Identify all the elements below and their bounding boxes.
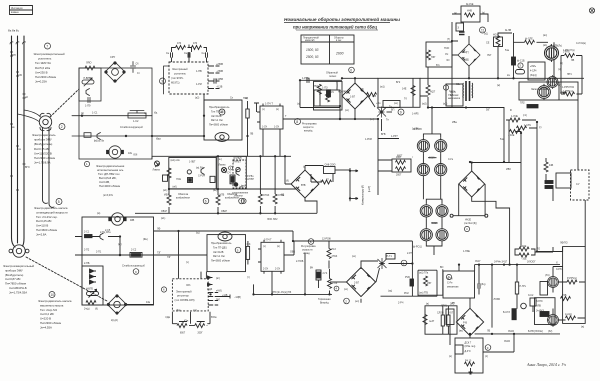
converter2 box xyxy=(207,235,246,272)
ladder resistor KDzh xyxy=(177,322,187,328)
wire bridge V4 bottom xyxy=(469,335,471,338)
resistor pair 100G xyxy=(392,159,411,172)
phase line fuse ticks xyxy=(10,52,26,190)
resistor NS4 xyxy=(494,36,503,47)
svg-text:Н(2Г: Н(2Г xyxy=(430,91,436,94)
svg-text:200Г: 200Г xyxy=(396,174,402,177)
svg-text:Ы-С1Б: Ы-С1Б xyxy=(517,60,525,63)
svg-text:(и1): (и1) xyxy=(161,217,165,220)
wire left drop x178 xyxy=(178,231,180,279)
wire tacho right xyxy=(387,111,393,113)
svg-text:Р-РРЧ(з): Р-РРЧ(з) xyxy=(567,277,577,280)
wire bridge V3 bottom jog xyxy=(472,197,510,265)
svg-text:(л): (л) xyxy=(560,62,563,65)
svg-text:Ы-РОЮ: Ы-РОЮ xyxy=(413,128,422,131)
svg-text:ИФ1: ИФ1 xyxy=(164,194,170,197)
svg-text:51а: 51а xyxy=(505,49,510,52)
svg-text:(кз): (кз) xyxy=(394,102,398,105)
right output rect xyxy=(563,247,586,324)
junction xyxy=(119,254,121,256)
svg-text:Фа Фв Фс: Фа Фв Фс xyxy=(8,30,20,33)
circled note 22 xyxy=(241,199,246,204)
resistor SLOO xyxy=(441,306,444,334)
terminal row 2 xyxy=(208,72,220,74)
svg-text:(л): (л) xyxy=(558,85,561,87)
svg-text:(кч): (кч) xyxy=(370,118,374,121)
svg-text:НСЬ: НСЬ xyxy=(176,179,181,181)
wire NS3 to switch xyxy=(247,136,249,156)
svg-text:(еч): (еч) xyxy=(355,300,359,303)
box U1 outline xyxy=(79,68,152,159)
svg-text:5: 5 xyxy=(58,200,60,204)
svg-text:Ы-ЛВ: Ы-ЛВ xyxy=(505,29,511,32)
wire y162 to bridge xyxy=(472,162,521,164)
inner sub-box xyxy=(82,266,103,305)
resistor N4V xyxy=(465,13,475,17)
svg-text:12-РОЖ: 12-РОЖ xyxy=(322,238,332,241)
svg-text:Б-СГЗ: Б-СГЗ xyxy=(503,311,510,314)
svg-text:СЛОО: СЛОО xyxy=(437,313,444,315)
bus y296 xyxy=(381,295,419,297)
relay SL2 xyxy=(527,105,538,108)
wire EU down xyxy=(203,94,205,136)
svg-text:(см Лист(9)): (см Лист(9)) xyxy=(464,223,477,225)
svg-text:(кч): (кч) xyxy=(344,288,348,291)
bus y264 xyxy=(475,264,560,266)
resistor S44 xyxy=(367,93,377,97)
wire star2 to x412 xyxy=(389,263,413,265)
svg-text:(в): (в) xyxy=(81,112,84,115)
circled note 2 xyxy=(59,124,65,130)
svg-text:(в): (в) xyxy=(454,12,457,15)
capacitor Cb1 xyxy=(171,52,173,57)
svg-text:РУ: РУ xyxy=(452,302,456,305)
svg-text:ОВБ: ОВБ xyxy=(290,251,295,254)
svg-text:Х: Х xyxy=(556,261,558,265)
svg-text:ЮОж: ЮОж xyxy=(211,317,217,319)
capacitor C1 xyxy=(88,97,90,102)
svg-text:Р4Б: Р4Б xyxy=(562,294,567,297)
wire left drop xyxy=(452,14,488,78)
bridge V7 xyxy=(342,83,368,109)
resistor 1-SL4 xyxy=(517,126,527,130)
svg-text:Р13: Р13 xyxy=(332,248,337,251)
circled note 9 xyxy=(398,109,404,115)
svg-text:~ 40Е: ~ 40Е xyxy=(520,245,527,248)
svg-text:2ч(д): 2ч(д) xyxy=(84,308,90,311)
bridge 2RU xyxy=(107,295,126,314)
svg-text:(нб): (нб) xyxy=(173,187,177,189)
ladder links xyxy=(177,325,207,327)
svg-text:(Л1): (Л1) xyxy=(545,274,550,277)
resistor R-RR5 xyxy=(566,316,576,320)
wire row (s) xyxy=(79,135,152,137)
svg-text:50Г: 50Г xyxy=(486,109,491,112)
svg-text:1-С1: 1-С1 xyxy=(92,112,98,115)
resistor NS3 xyxy=(246,101,249,136)
svg-text:(ма): (ма) xyxy=(241,186,246,188)
svg-text:ЗЧ1Б: ЗЧ1Б xyxy=(504,340,510,343)
svg-text:(щ): (щ) xyxy=(196,232,200,235)
test bus with terminals xyxy=(450,214,488,217)
svg-text:4-СЛ4: 4-СЛ4 xyxy=(530,71,537,73)
svg-text:200Г: 200Г xyxy=(198,333,204,335)
svg-text:Коммутатору (R): Коммутатору (R) xyxy=(362,185,365,205)
svg-text:СБ: СБ xyxy=(19,74,23,77)
svg-text:(з): (з) xyxy=(558,69,561,71)
svg-text:7: 7 xyxy=(240,199,242,203)
svg-text:Б-НВ [ЛООм]: Б-НВ [ЛООм] xyxy=(528,330,543,333)
wire bridgeV4 top xyxy=(469,298,471,309)
resistor R470a xyxy=(172,46,193,53)
svg-text:Н-ВП5: Н-ВП5 xyxy=(84,78,92,80)
svg-text:6С19: 6С19 xyxy=(432,223,438,225)
svg-text:2: 2 xyxy=(61,125,63,129)
wire L1 up xyxy=(553,267,563,315)
svg-text:1-НР5: 1-НР5 xyxy=(412,114,419,116)
svg-text:ЗЧ1Б: ЗЧ1Б xyxy=(508,330,514,333)
lamp box B xyxy=(216,156,246,189)
field resistor OH13 xyxy=(258,156,262,213)
bus y294 xyxy=(254,293,333,295)
svg-text:2-П2: 2-П2 xyxy=(84,249,90,252)
svg-text:+12В: +12В xyxy=(222,295,228,297)
svg-text:ЛЧГ: ЛЧГ xyxy=(487,54,492,57)
svg-text:9: 9 xyxy=(400,110,402,114)
svg-text:2-С5: 2-С5 xyxy=(105,229,111,232)
wire switch to right xyxy=(283,118,340,120)
wire bridge V3 top xyxy=(471,163,473,172)
svg-text:2500, 93: 2500, 93 xyxy=(305,55,319,59)
top-right network box xyxy=(378,78,420,107)
cluster 3-S xyxy=(530,298,536,312)
svg-text:НЧ2Е: НЧ2Е xyxy=(465,220,471,222)
svg-text:6: 6 xyxy=(205,199,207,203)
svg-text:6: 6 xyxy=(350,68,352,72)
svg-text:(м2): (м2) xyxy=(422,103,427,106)
relay coil 1-LB xyxy=(327,90,331,97)
switch box 2-P4 xyxy=(261,242,284,271)
resistor 40E xyxy=(510,130,520,134)
wire left of right-rect xyxy=(537,188,553,252)
terminal row 3 xyxy=(208,78,220,83)
svg-text:2-П1: 2-П1 xyxy=(96,251,102,254)
svg-text:1-ЛБТ: 1-ЛБТ xyxy=(189,162,196,164)
svg-text:800Г: 800Г xyxy=(397,155,403,158)
svg-text:(з1): (з1) xyxy=(484,33,488,36)
svg-text:(м): (м) xyxy=(97,212,100,215)
converter box xyxy=(204,100,242,140)
svg-text:1-РР7: 1-РР7 xyxy=(391,135,398,138)
circled note 12 xyxy=(518,63,523,68)
svg-text:З-РЛБТ: З-РЛБТ xyxy=(233,162,241,164)
circled note 19 xyxy=(446,274,451,279)
wire 446 xyxy=(545,158,547,180)
svg-text:+об: +об xyxy=(372,95,377,98)
svg-text:1-ПЗ: 1-ПЗ xyxy=(322,87,328,90)
tube L3 xyxy=(544,44,558,62)
tube V2d xyxy=(436,227,448,242)
right resistor loop xyxy=(561,54,582,97)
svg-text:Ы-РО11: Ы-РО11 xyxy=(413,246,422,249)
svg-text:+250В: +250В xyxy=(216,63,223,66)
resistor R-GR4 xyxy=(515,265,518,309)
motor M2 exciter xyxy=(39,113,51,130)
circled note 3 xyxy=(160,78,166,84)
relay SN8 box xyxy=(324,167,336,174)
wire loop right edge xyxy=(418,269,443,295)
wire x378 down xyxy=(378,139,392,196)
svg-text:(б2): (б2) xyxy=(548,330,552,333)
svg-text:Ы-СЧЕ: Ы-СЧЕ xyxy=(466,4,474,6)
lamp circle B xyxy=(221,167,226,172)
svg-text:ЛВ: ЛВ xyxy=(250,133,254,136)
resistor 1-L4E xyxy=(510,118,520,122)
svg-text:РО2: РО2 xyxy=(404,292,409,295)
resistor NS6 xyxy=(167,168,171,178)
junction dot xyxy=(81,115,83,117)
spare box xyxy=(528,62,545,80)
transformer winding right xyxy=(471,83,474,98)
svg-text:Р4 10: Р4 10 xyxy=(465,360,472,363)
resistor B-SG3 xyxy=(512,309,516,320)
bridge VTV xyxy=(291,170,319,198)
svg-text:(в1): (в1) xyxy=(543,44,547,47)
circled note 23 xyxy=(84,161,89,166)
wire x537 down xyxy=(536,122,538,251)
svg-text:(с): (с) xyxy=(303,167,306,169)
svg-text:2-НБ: 2-НБ xyxy=(84,262,90,265)
svg-text:№3Г: №3Г xyxy=(429,320,435,323)
svg-text:Ида: Ида xyxy=(156,138,161,141)
svg-text:П-Т1: П-Т1 xyxy=(387,255,393,258)
svg-text:С-РОЧ: С-РОЧ xyxy=(198,176,206,178)
svg-text:−12[В]: −12[В] xyxy=(234,297,241,299)
wire bridge V3 right drop xyxy=(484,184,486,216)
wire y107 top xyxy=(428,107,504,109)
svg-text:1-ЛЧЕ: 1-ЛЧЕ xyxy=(511,115,518,118)
phase line B xyxy=(17,36,19,243)
svg-text:2-СЧ: 2-СЧ xyxy=(263,269,269,271)
bus y333.9 xyxy=(475,333,560,335)
svg-text:ЛФ: ЛФ xyxy=(157,228,161,231)
wire sw bottom xyxy=(254,271,273,294)
wire x504 xyxy=(503,107,505,162)
svg-text:НСч: НСч xyxy=(493,34,499,37)
PSU box xyxy=(519,82,578,100)
wire SN8 to commutator xyxy=(335,169,350,171)
svg-text:ОВ1Г: ОВ1Г xyxy=(161,210,168,213)
svg-text:С-Га: С-Га xyxy=(448,158,454,161)
field loop box xyxy=(425,306,457,334)
resistor N48 xyxy=(317,84,321,94)
circled note 13 xyxy=(133,269,139,275)
wire y107 left segment xyxy=(300,80,340,107)
dashed box EU amplifier xyxy=(169,62,208,94)
svg-text:НЧВ: НЧВ xyxy=(467,10,472,13)
svg-text:(а): (а) xyxy=(343,90,346,93)
svg-text:ВТВ: ВТВ xyxy=(301,184,306,187)
svg-text:ВО: ВО xyxy=(440,266,444,269)
bank bottom rail xyxy=(135,212,317,214)
circled note 11 xyxy=(480,27,486,33)
svg-text:(б): (б) xyxy=(95,308,98,311)
svg-text:Р-В: Р-В xyxy=(463,322,467,325)
svg-text:(а2): (а2) xyxy=(195,97,199,100)
svg-text:Лампа: Лампа xyxy=(219,165,227,167)
bank1 links xyxy=(423,134,440,162)
resistor pair 40E xyxy=(515,247,539,257)
coil S-sn xyxy=(187,170,192,183)
svg-text:(зе) ЛТВ: (зе) ЛТВ xyxy=(419,293,428,295)
svg-text:(ж): (ж) xyxy=(497,84,500,87)
contact 2-Nd xyxy=(100,233,104,240)
svg-text:(ч): (ч) xyxy=(186,261,189,264)
svg-text:+Uя: +Uя xyxy=(376,102,381,105)
bus y231 xyxy=(154,230,293,232)
wire stub left (v1) xyxy=(72,115,79,117)
svg-text:(б): (б) xyxy=(361,88,364,91)
svg-text:/м: /м xyxy=(144,112,147,115)
wire x514 down xyxy=(450,325,514,352)
circled note g1 xyxy=(203,198,209,204)
resistor R13 xyxy=(327,241,331,269)
svg-text:48В: 48В xyxy=(130,219,135,222)
wire star2 xyxy=(361,261,380,282)
resistor R4B xyxy=(561,297,571,301)
bridge V3 big xyxy=(459,171,485,197)
svg-text:−10Е: −10Е xyxy=(521,258,527,261)
svg-text:−250В: −250В xyxy=(216,70,223,73)
relay box 3LV xyxy=(540,282,548,296)
wire VTV bottom xyxy=(305,198,317,213)
resistor R470b xyxy=(192,46,207,53)
svg-text:(я=3,07в: (я=3,07в xyxy=(103,194,114,197)
svg-text:2-ПЧ Т: 2-ПЧ Т xyxy=(264,239,272,242)
resistor N3G xyxy=(423,315,427,325)
svg-text:(з): (з) xyxy=(297,103,300,106)
svg-text:(г1): (г1) xyxy=(523,114,527,117)
svg-text:ЛВ: ЛВ xyxy=(571,59,575,62)
feedback loop xyxy=(461,6,480,22)
contact SE xyxy=(84,133,91,138)
svg-text:З-РЛч: З-РЛч xyxy=(556,268,563,271)
svg-text:СЕ: СЕ xyxy=(486,42,490,45)
svg-text:ВЧ: ВЧ xyxy=(310,267,313,270)
terminal row r3 xyxy=(208,300,218,302)
junction dot xyxy=(125,135,127,137)
wire switch right xyxy=(284,241,294,255)
svg-text:Юб: Юб xyxy=(134,154,138,157)
junction dots row xyxy=(203,135,205,137)
wire bridge2V7 left xyxy=(330,281,346,283)
circled note 16 xyxy=(334,286,339,291)
svg-text:НЧ8: НЧ8 xyxy=(314,86,319,88)
svg-text:3: 3 xyxy=(161,79,163,83)
svg-text:2-Г4: 2-Г4 xyxy=(323,272,328,275)
wire M2 windings down xyxy=(43,128,48,203)
tube V1b xyxy=(435,138,447,153)
wire bridge left xyxy=(341,95,344,97)
svg-text:2НЗ [2г-СЧ(к)] НЗ: 2НЗ [2г-СЧ(к)] НЗ xyxy=(272,291,292,294)
resistor 14E xyxy=(411,86,415,96)
svg-text:(кг): (кг) xyxy=(118,243,122,246)
terminal row r1 xyxy=(208,292,218,294)
bridge V4 xyxy=(456,308,483,335)
svg-text:800Г: 800Г xyxy=(180,333,186,335)
switch pins xyxy=(257,104,280,157)
capacitor Sb xyxy=(130,62,135,73)
svg-text:1-РР5 ПЛ2: 1-РР5 ПЛ2 xyxy=(562,86,575,89)
box 1-SLV xyxy=(556,173,571,188)
diode pair 2-D3 xyxy=(207,276,213,286)
terminal row r4 xyxy=(208,304,218,306)
bank2 links xyxy=(423,177,442,255)
svg-text:1-СЧ: 1-СЧ xyxy=(262,127,268,129)
svg-text:(Рн[з]): (Рн[з]) xyxy=(530,75,537,77)
svg-text:(сд): (сд) xyxy=(193,310,197,312)
svg-text:51а: 51а xyxy=(500,138,505,141)
box divider xyxy=(412,78,414,107)
tube V2c xyxy=(420,227,432,242)
svg-text:Стабилизирующий: Стабилизирующий xyxy=(120,126,143,129)
wire box bottom to right bus xyxy=(151,156,153,159)
tube L3b xyxy=(547,75,558,89)
BCM box xyxy=(443,271,475,298)
circled note 24 xyxy=(443,85,448,90)
svg-text:(кз): (кз) xyxy=(352,255,356,258)
capacitor Cb3 xyxy=(206,52,208,57)
phase taps to M2 xyxy=(18,110,41,122)
svg-text:(м.): (м.) xyxy=(218,159,222,161)
terminal row r2 xyxy=(208,296,218,298)
tube V2b xyxy=(436,203,448,218)
bus U1 to converter xyxy=(152,135,204,137)
circled note 15 xyxy=(308,239,314,245)
svg-text:Номинальные обороты электролит: Номинальные обороты электролитной машины xyxy=(284,16,400,22)
wire xyxy=(49,128,54,207)
svg-text:(и): (и) xyxy=(276,109,279,111)
svg-text:Передаточный: Передаточный xyxy=(303,36,319,39)
svg-text:НЛВ: НЛВ xyxy=(536,305,541,308)
wire x509 down xyxy=(508,120,510,162)
arrow out 1 xyxy=(350,170,358,172)
spec table xyxy=(301,35,354,64)
wire x492 xyxy=(491,265,493,328)
bridge 2V7 xyxy=(346,267,375,296)
relay bar 2-S1 xyxy=(85,235,93,238)
circled note g2 xyxy=(239,198,245,204)
lamp indicator left xyxy=(155,161,160,167)
resistor box NS2 xyxy=(314,90,340,106)
svg-text:1-РЛ5Г: 1-РЛ5Г xyxy=(247,179,255,181)
resistor LYaO on top edge xyxy=(85,66,95,70)
phase line A xyxy=(12,36,16,247)
svg-text:ИЗГ: ИЗГ xyxy=(427,282,432,285)
resistor R-RR4 xyxy=(567,280,577,284)
svg-text:1-ПВ: 1-ПВ xyxy=(196,70,202,73)
top edge of PSU box xyxy=(452,77,584,79)
small box inside xyxy=(455,345,463,354)
contact 1-RL5G xyxy=(236,169,240,176)
bottom terminal xyxy=(469,368,473,374)
circled note 5 xyxy=(56,199,62,205)
wire tube L1 to rect xyxy=(559,282,586,320)
inner box xyxy=(383,101,400,108)
svg-text:−6,3В: −6,3В xyxy=(216,86,223,89)
wire bus y78 xyxy=(340,78,452,138)
transformer core xyxy=(466,81,470,101)
